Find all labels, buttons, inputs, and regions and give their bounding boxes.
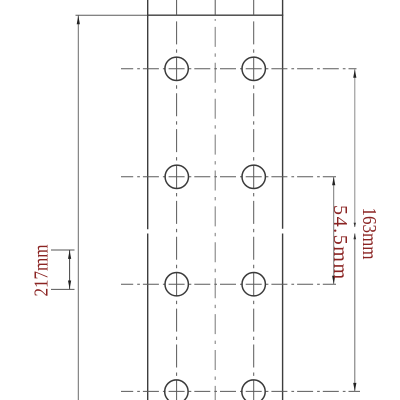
svg-text:163mm: 163mm [358,208,380,260]
dimension 217mm: bottom arrowhead [68,281,71,290]
dimension 217mm: dimension line [69,250,71,289]
column 2 centerline: dash-dot inside plate [253,17,255,400]
row 2 centerline (dash-dot) [121,176,336,178]
dimension 217mm: top arrowhead [68,250,71,259]
hole row2 col2 [242,165,265,188]
row 4 centerline (dash-dot) [121,390,360,392]
arrowhead at top of left dimension line [77,15,80,24]
dimension 163mm: break mark lower [354,233,357,239]
hole row3 col1 [165,273,188,296]
dimension 54.5mm: dimension line [333,177,335,284]
plate top edge [147,14,283,16]
dimension 163mm: dimension line upper segment [354,69,356,227]
hole row1 col1 [165,57,188,80]
svg-text:54.5mm: 54.5mm [329,205,351,279]
plate right edge (with break gap) [282,0,284,229]
column 1 centerline: dash-dot inside plate [176,17,178,400]
dimension 54.5mm: top arrowhead [332,177,335,186]
hole row3 col2 [242,273,265,296]
row 3 centerline (dash-dot) [121,283,336,285]
row 1 centerline (dash-dot) [121,68,357,70]
middle centerline: dash-dot inside plate [214,19,216,400]
dimension 163mm: break mark upper [354,223,356,227]
hole row4 col1 [165,380,188,400]
dimension 163mm: bottom arrowhead [353,383,356,392]
column 1 centerline: solid stub above plate [176,0,178,15]
hole row4 col2 [242,380,265,400]
svg-text:217mm: 217mm [30,244,52,296]
plate left edge (with break gap) [147,0,149,229]
column 2 centerline: solid stub above plate [253,0,255,15]
dimension 163mm: top arrowhead [353,69,356,78]
middle centerline: solid stub above plate [214,0,216,15]
dimension 54.5mm: bottom arrowhead [332,276,335,285]
hole row1 col2 [242,57,265,80]
wire: extension line from left dimension to plate top edge [76,14,148,16]
hole row2 col1 [165,165,188,188]
dimension 163mm: dimension line lower segment [354,234,356,392]
wire: left overall dimension line x=78.3 [77,15,79,400]
dimension 217mm: upper extension tick [51,249,75,251]
dimension 217mm: lower extension tick [51,288,75,290]
